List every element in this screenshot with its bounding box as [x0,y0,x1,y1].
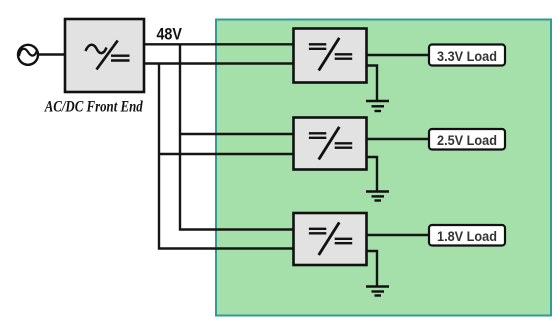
svg-text:AC/DC Front End: AC/DC Front End [44,98,143,115]
svg-text:2.5V Load: 2.5V Load [437,133,497,149]
svg-text:3.3V Load: 3.3V Load [437,49,497,65]
svg-text:48V: 48V [156,24,182,43]
svg-text:1.8V Load: 1.8V Load [437,229,497,245]
